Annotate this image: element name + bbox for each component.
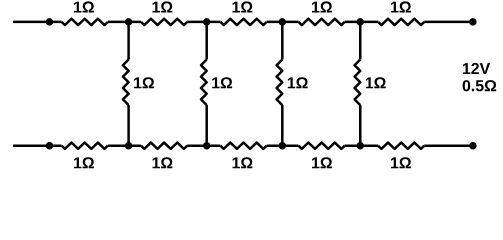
value label R14 1ohm — [366, 77, 386, 88]
value label R10 1ohm — [391, 157, 411, 168]
node A top rail junction 1 — [46, 18, 54, 26]
resistor R5 top — [378, 19, 424, 25]
value label R7 1ohm — [153, 157, 173, 168]
value label R3 1ohm — [233, 1, 253, 12]
node L bottom rail right terminal — [469, 142, 477, 150]
resistor R8 bottom — [220, 143, 266, 149]
source label 12V — [463, 63, 490, 74]
value label R6 1ohm — [74, 157, 94, 168]
wire branch1 top lead — [127, 22, 130, 60]
value label R13 1ohm — [288, 77, 308, 88]
resistor R3 top — [220, 19, 266, 25]
wire branch1 bottom lead — [127, 105, 130, 146]
node J bottom rail junction 4 — [279, 142, 287, 150]
wire top rail segment 1-2 — [108, 21, 141, 24]
wire bottom rail segment 2-3 — [187, 144, 220, 147]
resistor R14 vertical branch4 — [355, 60, 361, 106]
resistor R10 bottom — [378, 143, 424, 149]
value label R4 1ohm — [312, 1, 332, 12]
wire bottom rail segment 4-5 — [345, 144, 378, 147]
node G bottom rail junction 1 — [46, 142, 54, 150]
wire bottom rail left stub — [13, 144, 62, 147]
wire branch2 bottom lead — [205, 105, 208, 146]
wire branch3 top lead — [281, 22, 284, 60]
wire top rail segment 2-3 — [187, 21, 220, 24]
wire top rail right stub — [424, 21, 473, 24]
resistor R2 top — [141, 19, 187, 25]
node I bottom rail junction 3 — [203, 142, 211, 150]
value label R12 1ohm — [212, 77, 232, 88]
wire top rail left stub — [13, 21, 62, 24]
wire top rail segment 3-4 — [267, 21, 299, 24]
wire branch2 top lead — [205, 22, 208, 60]
value label R9 1ohm — [312, 157, 332, 168]
value label R2 1ohm — [153, 1, 173, 12]
resistor R4 top — [299, 19, 345, 25]
wire branch4 bottom lead — [359, 105, 362, 146]
wire top rail segment 4-5 — [345, 21, 378, 24]
source label 0.5ohm — [463, 80, 497, 91]
wire bottom rail segment 3-4 — [267, 144, 299, 147]
resistor R13 vertical branch3 — [277, 60, 283, 106]
node C top rail junction 3 — [203, 18, 211, 26]
node K bottom rail junction 5 — [357, 142, 365, 150]
wire bottom rail segment 1-2 — [108, 144, 141, 147]
node E top rail junction 5 — [357, 18, 365, 26]
resistor R1 top — [62, 19, 108, 25]
wire bottom rail right stub — [424, 144, 473, 147]
node F top rail right terminal — [469, 18, 477, 26]
wire branch3 bottom lead — [281, 105, 284, 146]
value label R11 1ohm — [134, 77, 154, 88]
resistor R7 bottom — [141, 143, 187, 149]
value label R5 1ohm — [391, 1, 411, 12]
value label R8 1ohm — [233, 157, 253, 168]
resistor R6 bottom — [62, 143, 108, 149]
resistor R12 vertical branch2 — [201, 60, 207, 106]
node B top rail junction 2 — [125, 18, 133, 26]
node D top rail junction 4 — [279, 18, 287, 26]
node H bottom rail junction 2 — [125, 142, 133, 150]
value label R1 1ohm — [74, 1, 94, 12]
wire branch4 top lead — [359, 22, 362, 60]
resistor R9 bottom — [299, 143, 345, 149]
resistor R11 vertical branch1 — [123, 60, 129, 106]
